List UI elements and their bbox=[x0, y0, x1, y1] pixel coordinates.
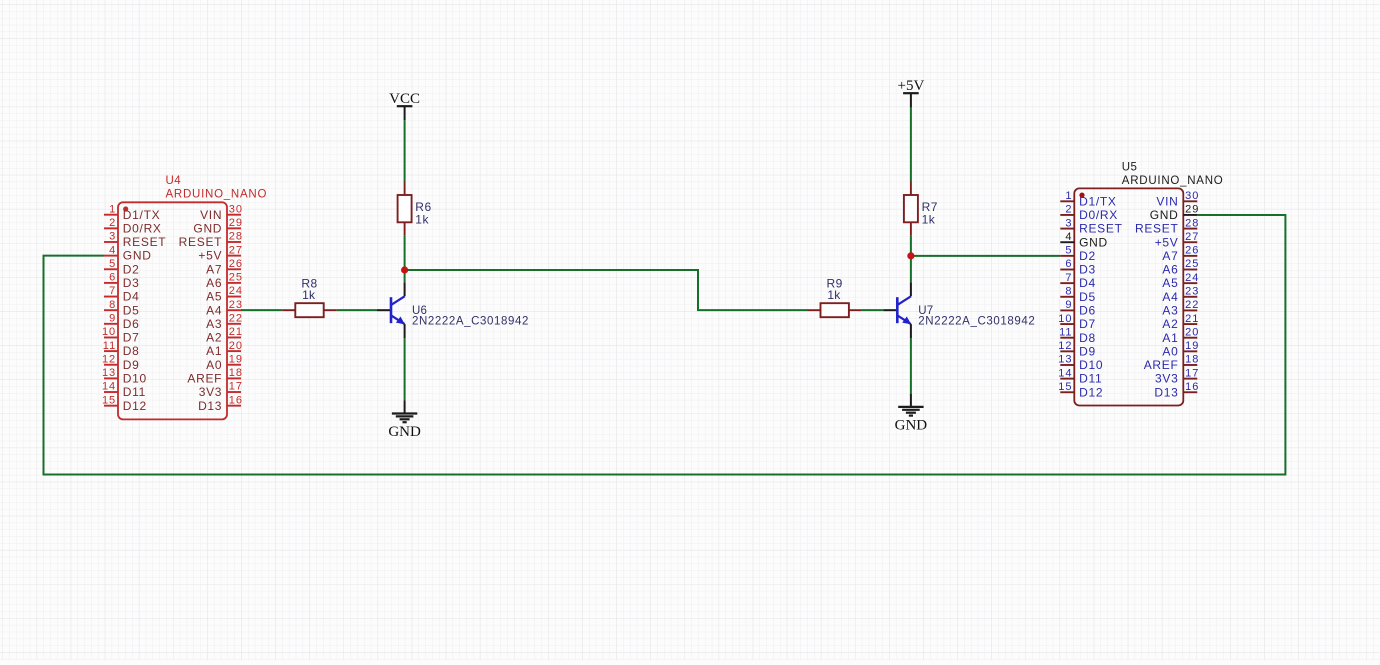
svg-text:A4: A4 bbox=[206, 303, 222, 317]
U5 pin 6 (D3) bbox=[1060, 258, 1096, 276]
svg-text:A5: A5 bbox=[206, 290, 222, 304]
wire U6 emitter to GND bbox=[404, 338, 406, 400]
svg-text:23: 23 bbox=[229, 299, 243, 311]
svg-text:8: 8 bbox=[109, 299, 116, 311]
svg-text:D6: D6 bbox=[123, 317, 140, 331]
U4 pin 15 (D12) bbox=[102, 394, 147, 412]
svg-text:7: 7 bbox=[109, 285, 116, 297]
ground symbol GND (U7 emitter) bbox=[895, 394, 928, 434]
ground symbol GND (U6 emitter) bbox=[388, 400, 421, 440]
U4 pin 5 (D2) bbox=[104, 258, 140, 276]
svg-text:ARDUINO_NANO: ARDUINO_NANO bbox=[166, 188, 268, 200]
U5 pin 30 (VIN) bbox=[1156, 190, 1199, 208]
svg-text:D13: D13 bbox=[1154, 385, 1178, 399]
svg-text:25: 25 bbox=[229, 272, 243, 284]
resistor R9 (1k) bbox=[808, 303, 862, 317]
wire net: U4 pin4 GND to U5 pin29 GND (long loop) bbox=[44, 215, 1286, 475]
svg-text:26: 26 bbox=[1185, 245, 1199, 257]
svg-text:5: 5 bbox=[1065, 245, 1072, 257]
U5 pin 25 (A6) bbox=[1162, 258, 1199, 276]
IC U4 ARDUINO_NANO bbox=[102, 175, 267, 419]
svg-text:RESET: RESET bbox=[123, 235, 167, 249]
U5 pin 27 (+5V) bbox=[1155, 231, 1200, 249]
wire R7 to node B bbox=[910, 236, 912, 256]
svg-text:D2: D2 bbox=[1079, 249, 1096, 263]
svg-text:1k: 1k bbox=[415, 213, 429, 227]
transistor U7 2N2222A NPN bbox=[883, 282, 911, 338]
U5 pin 22 (A3) bbox=[1162, 299, 1199, 317]
svg-text:13: 13 bbox=[1058, 354, 1072, 366]
resistor R6 (1k) bbox=[398, 182, 412, 236]
wire R8 to U6 base bbox=[337, 309, 377, 311]
svg-text:RESET: RESET bbox=[1079, 222, 1123, 236]
power symbol +5V bbox=[898, 78, 925, 107]
svg-text:D1/TX: D1/TX bbox=[1079, 194, 1117, 208]
U4 pin 2 (D0/RX) bbox=[104, 217, 162, 235]
svg-text:15: 15 bbox=[1058, 381, 1072, 393]
U4 pin 11 (D8) bbox=[103, 340, 140, 358]
U4 pin 22 (A3) bbox=[206, 313, 243, 331]
svg-text:D0/RX: D0/RX bbox=[123, 221, 162, 235]
svg-text:9: 9 bbox=[1065, 299, 1072, 311]
U4 pin 24 (A5) bbox=[206, 285, 243, 303]
svg-text:3V3: 3V3 bbox=[1155, 372, 1178, 386]
svg-text:D0/RX: D0/RX bbox=[1079, 208, 1118, 222]
svg-text:A0: A0 bbox=[206, 358, 222, 372]
svg-text:8: 8 bbox=[1065, 285, 1072, 297]
svg-text:D4: D4 bbox=[1079, 276, 1096, 290]
svg-text:26: 26 bbox=[229, 258, 243, 270]
U5 pin 17 (3V3) bbox=[1155, 367, 1199, 385]
U4 pin 16 (D13) bbox=[198, 394, 243, 412]
U5 pin 23 (A4) bbox=[1162, 285, 1199, 303]
wire R6 to node A bbox=[404, 236, 406, 270]
U4 pin 18 (AREF) bbox=[187, 367, 243, 385]
U5 pin 15 (D12) bbox=[1058, 381, 1103, 399]
svg-text:+5V: +5V bbox=[898, 78, 925, 94]
svg-text:VIN: VIN bbox=[1156, 194, 1178, 208]
svg-text:29: 29 bbox=[229, 217, 243, 229]
U5 pin 5 (D2) bbox=[1060, 245, 1096, 263]
svg-text:1: 1 bbox=[1065, 190, 1072, 202]
svg-text:17: 17 bbox=[1185, 367, 1199, 379]
svg-text:2N2222A_C3018942: 2N2222A_C3018942 bbox=[918, 315, 1035, 327]
svg-text:6: 6 bbox=[109, 272, 116, 284]
svg-text:D4: D4 bbox=[123, 290, 140, 304]
svg-text:22: 22 bbox=[1185, 299, 1199, 311]
svg-text:10: 10 bbox=[102, 326, 116, 338]
svg-text:30: 30 bbox=[1185, 190, 1199, 202]
svg-text:D12: D12 bbox=[123, 399, 147, 413]
U4 pin 9 (D6) bbox=[104, 313, 140, 331]
svg-text:25: 25 bbox=[1185, 258, 1199, 270]
wire U7 emitter to GND bbox=[910, 338, 912, 393]
svg-text:D10: D10 bbox=[1079, 358, 1103, 372]
svg-text:VIN: VIN bbox=[200, 208, 222, 222]
svg-text:14: 14 bbox=[102, 381, 116, 393]
U4 pin 19 (A0) bbox=[206, 353, 243, 371]
svg-text:GND: GND bbox=[1079, 235, 1108, 249]
svg-text:D8: D8 bbox=[123, 344, 140, 358]
U5 pin 29 (GND) bbox=[1150, 204, 1200, 222]
svg-text:3: 3 bbox=[1065, 217, 1072, 229]
wire node B to U7 collector bbox=[910, 256, 912, 282]
svg-text:GND: GND bbox=[388, 424, 421, 440]
svg-text:D6: D6 bbox=[1079, 304, 1096, 318]
U4 pin 6 (D3) bbox=[104, 272, 140, 290]
wire node A to R9 (step) bbox=[405, 270, 808, 310]
svg-text:11: 11 bbox=[103, 340, 116, 352]
svg-text:D13: D13 bbox=[198, 399, 222, 413]
U5 pin 19 (A0) bbox=[1162, 340, 1199, 358]
svg-text:D12: D12 bbox=[1079, 385, 1103, 399]
svg-text:12: 12 bbox=[1058, 340, 1072, 352]
U5 pin 8 (D5) bbox=[1060, 285, 1096, 303]
svg-text:RESET: RESET bbox=[179, 235, 223, 249]
U5 pin 26 (A7) bbox=[1162, 245, 1199, 263]
svg-text:1: 1 bbox=[109, 203, 116, 215]
svg-text:AREF: AREF bbox=[187, 371, 222, 385]
U5 pin-1 marker dot bbox=[1079, 193, 1084, 198]
svg-text:D1/TX: D1/TX bbox=[123, 208, 161, 222]
U5 pin 18 (AREF) bbox=[1144, 354, 1200, 372]
svg-text:1k: 1k bbox=[302, 288, 316, 302]
svg-text:GND: GND bbox=[895, 417, 928, 433]
svg-text:17: 17 bbox=[229, 381, 243, 393]
svg-text:28: 28 bbox=[229, 231, 243, 243]
svg-text:24: 24 bbox=[1185, 272, 1199, 284]
svg-text:3V3: 3V3 bbox=[199, 385, 222, 399]
wire +5V to R7 bbox=[910, 107, 912, 182]
U5 pin 28 (RESET) bbox=[1135, 217, 1199, 235]
svg-text:+5V: +5V bbox=[1155, 235, 1179, 249]
U5 pin 7 (D4) bbox=[1060, 272, 1096, 290]
svg-text:5: 5 bbox=[109, 258, 116, 270]
U5 pin 10 (D7) bbox=[1058, 313, 1096, 331]
U5 pin 21 (A2) bbox=[1162, 313, 1199, 331]
svg-text:30: 30 bbox=[229, 203, 243, 215]
U5 pin 12 (D9) bbox=[1058, 340, 1096, 358]
svg-text:20: 20 bbox=[229, 340, 243, 352]
svg-text:6: 6 bbox=[1065, 258, 1072, 270]
svg-text:ARDUINO_NANO: ARDUINO_NANO bbox=[1122, 175, 1224, 187]
svg-text:21: 21 bbox=[1185, 313, 1199, 325]
U5 pin 20 (A1) bbox=[1162, 326, 1199, 344]
svg-text:A1: A1 bbox=[1162, 331, 1178, 345]
U4 pin 12 (D9) bbox=[102, 353, 140, 371]
svg-text:D5: D5 bbox=[123, 303, 140, 317]
U5 pin 3 (RESET) bbox=[1060, 217, 1122, 235]
svg-text:D3: D3 bbox=[1079, 263, 1096, 277]
svg-text:A7: A7 bbox=[1162, 249, 1178, 263]
svg-text:2: 2 bbox=[109, 217, 116, 229]
svg-text:D11: D11 bbox=[1079, 372, 1102, 386]
svg-text:GND: GND bbox=[1150, 208, 1179, 222]
U5 pin 4 (GND) bbox=[1060, 231, 1108, 249]
junction node A (R6/U6 collector/R9) bbox=[401, 266, 408, 273]
U5 pin 16 (D13) bbox=[1154, 381, 1199, 399]
svg-text:D9: D9 bbox=[1079, 344, 1096, 358]
svg-text:13: 13 bbox=[102, 367, 116, 379]
svg-text:27: 27 bbox=[229, 244, 243, 256]
svg-text:D7: D7 bbox=[1079, 317, 1096, 331]
svg-text:A3: A3 bbox=[206, 317, 222, 331]
svg-text:21: 21 bbox=[229, 326, 243, 338]
svg-text:D3: D3 bbox=[123, 276, 140, 290]
U4 pin 1 (D1/TX) bbox=[104, 203, 160, 221]
U4 pin 10 (D7) bbox=[102, 326, 140, 344]
svg-text:18: 18 bbox=[1185, 354, 1199, 366]
U5 pin 14 (D11) bbox=[1058, 367, 1102, 385]
U4 pin 13 (D10) bbox=[102, 367, 147, 385]
U5 body outline bbox=[1074, 188, 1183, 405]
wire node B to U5 pin5 D2 bbox=[911, 255, 1060, 257]
svg-text:A7: A7 bbox=[206, 262, 222, 276]
svg-text:23: 23 bbox=[1185, 285, 1199, 297]
svg-text:16: 16 bbox=[229, 394, 243, 406]
U5 pin 24 (A5) bbox=[1162, 272, 1199, 290]
wire node A to U6 collector bbox=[404, 270, 406, 282]
U5 pin 13 (D10) bbox=[1058, 354, 1103, 372]
U4 pin 30 (VIN) bbox=[200, 203, 243, 221]
U4 pin 14 (D11) bbox=[102, 381, 146, 399]
wire VCC to R6 bbox=[404, 120, 406, 181]
svg-text:AREF: AREF bbox=[1144, 358, 1179, 372]
svg-text:A3: A3 bbox=[1162, 304, 1178, 318]
svg-text:27: 27 bbox=[1185, 231, 1199, 243]
svg-text:24: 24 bbox=[229, 285, 243, 297]
svg-text:D8: D8 bbox=[1079, 331, 1096, 345]
U4 pin-1 marker dot bbox=[123, 206, 128, 211]
svg-text:D9: D9 bbox=[123, 358, 140, 372]
svg-text:11: 11 bbox=[1059, 326, 1072, 338]
svg-text:A6: A6 bbox=[206, 276, 222, 290]
svg-text:10: 10 bbox=[1058, 313, 1072, 325]
svg-text:D7: D7 bbox=[123, 331, 140, 345]
U4 pin 8 (D5) bbox=[104, 299, 140, 317]
svg-text:29: 29 bbox=[1185, 204, 1199, 216]
U4 pin 20 (A1) bbox=[206, 340, 243, 358]
svg-text:U4: U4 bbox=[166, 175, 182, 187]
svg-text:GND: GND bbox=[123, 249, 152, 263]
U4 pin 3 (RESET) bbox=[104, 231, 166, 249]
svg-text:D10: D10 bbox=[123, 371, 147, 385]
svg-text:+5V: +5V bbox=[198, 249, 222, 263]
svg-text:A2: A2 bbox=[206, 331, 222, 345]
U5 pin 1 (D1/TX) bbox=[1060, 190, 1116, 208]
svg-text:19: 19 bbox=[229, 353, 243, 365]
U4 pin 25 (A6) bbox=[206, 272, 243, 290]
svg-text:16: 16 bbox=[1185, 381, 1199, 393]
svg-text:28: 28 bbox=[1185, 217, 1199, 229]
svg-text:15: 15 bbox=[102, 394, 116, 406]
svg-text:A0: A0 bbox=[1162, 344, 1178, 358]
U4 pin 28 (RESET) bbox=[179, 231, 243, 249]
svg-text:2N2222A_C3018942: 2N2222A_C3018942 bbox=[412, 315, 529, 327]
svg-text:1k: 1k bbox=[922, 213, 936, 227]
U4 pin 7 (D4) bbox=[104, 285, 140, 303]
svg-text:A5: A5 bbox=[1162, 276, 1178, 290]
svg-text:4: 4 bbox=[1065, 231, 1072, 243]
junction node B (R7/U7 collector/U5 D2) bbox=[907, 252, 914, 259]
svg-text:4: 4 bbox=[109, 244, 116, 256]
U4 pin 23 (A4) bbox=[206, 299, 243, 317]
svg-text:18: 18 bbox=[229, 367, 243, 379]
svg-text:U5: U5 bbox=[1122, 162, 1138, 174]
U5 pin 11 (D8) bbox=[1059, 326, 1096, 344]
U5 pin 9 (D6) bbox=[1060, 299, 1096, 317]
svg-text:A2: A2 bbox=[1162, 317, 1178, 331]
svg-text:RESET: RESET bbox=[1135, 222, 1179, 236]
svg-text:2: 2 bbox=[1065, 204, 1072, 216]
svg-text:20: 20 bbox=[1185, 326, 1199, 338]
power symbol VCC bbox=[389, 91, 420, 120]
svg-text:GND: GND bbox=[193, 221, 222, 235]
U4 pin 26 (A7) bbox=[206, 258, 243, 276]
U5 pin 2 (D0/RX) bbox=[1060, 204, 1118, 222]
svg-text:12: 12 bbox=[102, 353, 116, 365]
svg-text:7: 7 bbox=[1065, 272, 1072, 284]
wire U4 pin23 A4 to R8 bbox=[241, 309, 282, 311]
svg-text:14: 14 bbox=[1058, 367, 1072, 379]
svg-text:D2: D2 bbox=[123, 262, 140, 276]
svg-text:9: 9 bbox=[109, 313, 116, 325]
svg-text:VCC: VCC bbox=[389, 91, 420, 107]
U4 pin 21 (A2) bbox=[206, 326, 243, 344]
svg-text:19: 19 bbox=[1185, 340, 1199, 352]
svg-text:D11: D11 bbox=[123, 385, 146, 399]
svg-text:1k: 1k bbox=[827, 288, 841, 302]
U4 pin 27 (+5V) bbox=[198, 244, 243, 262]
transistor U6 2N2222A NPN bbox=[377, 282, 405, 338]
svg-text:A6: A6 bbox=[1162, 263, 1178, 277]
U4 pin 29 (GND) bbox=[193, 217, 243, 235]
svg-text:D5: D5 bbox=[1079, 290, 1096, 304]
resistor R8 (1k) bbox=[282, 303, 336, 317]
svg-text:3: 3 bbox=[109, 231, 116, 243]
U4 body outline bbox=[118, 202, 227, 419]
IC U5 ARDUINO_NANO bbox=[1058, 162, 1223, 406]
wire R9 to U7 base bbox=[862, 309, 883, 311]
svg-text:A4: A4 bbox=[1162, 290, 1178, 304]
svg-text:22: 22 bbox=[229, 313, 243, 325]
svg-text:A1: A1 bbox=[206, 344, 222, 358]
U4 pin 4 (GND) bbox=[104, 244, 152, 262]
U4 pin 17 (3V3) bbox=[199, 381, 243, 399]
resistor R7 (1k) bbox=[904, 182, 918, 236]
